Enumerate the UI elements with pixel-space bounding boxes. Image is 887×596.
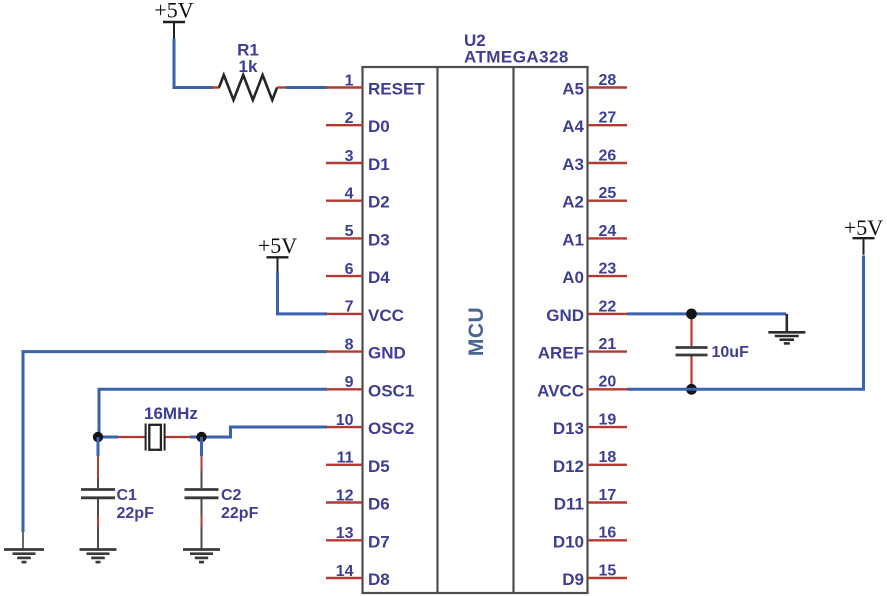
pin 20 stub bbox=[588, 388, 627, 390]
svg-text:MCU: MCU bbox=[465, 307, 488, 356]
capacitor C2 leads bbox=[200, 437, 203, 549]
svg-text:22pF: 22pF bbox=[117, 505, 155, 522]
svg-text:9: 9 bbox=[345, 374, 354, 391]
svg-text:15: 15 bbox=[599, 562, 617, 579]
pin 1 stub bbox=[326, 86, 363, 88]
svg-text:AREF: AREF bbox=[538, 344, 584, 363]
crystal X1 16MHz bbox=[146, 424, 165, 451]
svg-text:22pF: 22pF bbox=[221, 505, 259, 522]
svg-text:4: 4 bbox=[345, 186, 354, 203]
pin 7 stub bbox=[326, 313, 363, 315]
svg-text:D12: D12 bbox=[553, 457, 584, 476]
svg-text:ATMEGA328: ATMEGA328 bbox=[464, 48, 569, 67]
pin 10 stub bbox=[326, 426, 363, 428]
svg-text:A2: A2 bbox=[562, 193, 584, 212]
svg-text:C2: C2 bbox=[221, 487, 242, 504]
svg-text:A1: A1 bbox=[562, 230, 584, 249]
ground symbol GND (below C2) bbox=[183, 550, 220, 563]
pin 21 stub bbox=[588, 350, 627, 352]
capacitor C1 leads bbox=[97, 437, 100, 549]
svg-text:+5V: +5V bbox=[844, 215, 883, 240]
wire +5V to pin 7 VCC bbox=[278, 273, 328, 314]
svg-text:D2: D2 bbox=[368, 193, 390, 212]
pin 8 stub bbox=[326, 350, 363, 352]
svg-text:A4: A4 bbox=[562, 117, 584, 136]
svg-text:22: 22 bbox=[599, 298, 617, 315]
svg-text:D13: D13 bbox=[553, 419, 584, 438]
svg-text:21: 21 bbox=[599, 336, 617, 353]
pin 6 stub bbox=[326, 275, 363, 277]
svg-text:16MHz: 16MHz bbox=[144, 404, 198, 423]
svg-text:20: 20 bbox=[599, 374, 617, 391]
wire pin 9 OSC1 to crystal node A bbox=[99, 389, 327, 434]
wire R1 to pin 1 bbox=[286, 86, 327, 89]
pin 19 stub bbox=[588, 426, 627, 428]
ground stem (right) bbox=[785, 314, 788, 332]
svg-text:D3: D3 bbox=[368, 230, 390, 249]
svg-text:OSC2: OSC2 bbox=[368, 419, 414, 438]
svg-text:10: 10 bbox=[336, 412, 354, 429]
svg-text:28: 28 bbox=[599, 72, 617, 89]
svg-text:26: 26 bbox=[599, 147, 617, 164]
wire pin 22 GND to right ground bbox=[627, 312, 786, 315]
pin 23 stub bbox=[588, 275, 627, 277]
pin 27 stub bbox=[588, 124, 627, 126]
svg-text:C1: C1 bbox=[117, 487, 138, 504]
pin 14 stub bbox=[326, 577, 363, 579]
crystal X1 leads bbox=[98, 436, 199, 439]
pin 2 stub bbox=[326, 124, 363, 126]
svg-text:6: 6 bbox=[345, 261, 354, 278]
svg-text:VCC: VCC bbox=[368, 306, 404, 325]
svg-text:D5: D5 bbox=[368, 457, 390, 476]
wire pin 8 GND to left ground bbox=[23, 352, 327, 532]
pin 28 stub bbox=[588, 86, 627, 88]
svg-text:D1: D1 bbox=[368, 155, 390, 174]
capacitor C1 plates bbox=[81, 490, 115, 498]
pin 3 stub bbox=[326, 162, 363, 164]
svg-text:23: 23 bbox=[599, 261, 617, 278]
svg-text:D11: D11 bbox=[554, 495, 584, 514]
svg-text:8: 8 bbox=[345, 336, 354, 353]
svg-text:+5V: +5V bbox=[154, 0, 193, 23]
node D (pin20 junction) bbox=[686, 384, 697, 395]
svg-text:16: 16 bbox=[599, 525, 617, 542]
ground symbol GND (right) bbox=[768, 332, 805, 343]
resistor R1 bbox=[212, 75, 287, 100]
capacitor C2 plates bbox=[185, 490, 219, 498]
svg-text:17: 17 bbox=[599, 487, 617, 504]
pin 9 stub bbox=[326, 388, 363, 390]
svg-text:13: 13 bbox=[336, 525, 354, 542]
svg-text:11: 11 bbox=[337, 450, 354, 467]
svg-text:25: 25 bbox=[599, 185, 617, 202]
svg-text:2: 2 bbox=[345, 110, 354, 127]
power symbol +5V (top left) bbox=[154, 0, 193, 39]
svg-text:+5V: +5V bbox=[258, 233, 297, 258]
node C (pin22 junction) bbox=[686, 309, 697, 320]
capacitor C3 leads bbox=[690, 314, 692, 390]
pin 25 stub bbox=[588, 199, 627, 201]
node A (OSC1 junction) bbox=[93, 432, 103, 442]
svg-text:18: 18 bbox=[599, 449, 617, 466]
svg-text:3: 3 bbox=[345, 148, 354, 165]
pin 26 stub bbox=[588, 162, 627, 164]
pin 17 stub bbox=[588, 501, 627, 503]
svg-text:D9: D9 bbox=[562, 570, 584, 589]
svg-text:1: 1 bbox=[345, 72, 354, 89]
svg-text:24: 24 bbox=[599, 223, 617, 240]
svg-text:5: 5 bbox=[345, 223, 354, 240]
capacitor C3 plates bbox=[676, 348, 708, 356]
svg-text:D7: D7 bbox=[368, 532, 390, 551]
svg-text:D0: D0 bbox=[368, 117, 390, 136]
pin 11 stub bbox=[326, 464, 363, 466]
svg-text:AVCC: AVCC bbox=[537, 381, 584, 400]
svg-text:GND: GND bbox=[546, 306, 584, 325]
node B (OSC2 junction) bbox=[196, 432, 206, 442]
ground symbol GND (below C1) bbox=[80, 550, 117, 563]
svg-text:D8: D8 bbox=[368, 570, 390, 589]
wire +5V to R1 (net RESET) bbox=[174, 39, 213, 88]
pin 5 stub bbox=[326, 237, 363, 239]
svg-text:19: 19 bbox=[599, 412, 617, 429]
U2 MCU label (rotated) bbox=[465, 307, 488, 356]
pin 4 stub bbox=[326, 199, 363, 201]
pin 24 stub bbox=[588, 237, 627, 239]
pin 13 stub bbox=[326, 539, 363, 541]
svg-text:7: 7 bbox=[345, 299, 354, 316]
ground symbol GND (far left) bbox=[4, 550, 44, 563]
svg-text:GND: GND bbox=[368, 344, 406, 363]
pin 22 stub bbox=[588, 313, 627, 315]
pin 16 stub bbox=[588, 539, 627, 541]
svg-text:14: 14 bbox=[336, 563, 354, 580]
svg-text:D6: D6 bbox=[368, 495, 390, 514]
svg-text:RESET: RESET bbox=[368, 80, 425, 99]
svg-text:12: 12 bbox=[336, 487, 354, 504]
svg-text:A3: A3 bbox=[562, 155, 584, 174]
svg-text:27: 27 bbox=[599, 110, 617, 127]
power symbol +5V (VCC) bbox=[258, 233, 297, 274]
wire pin 20 AVCC to +5V right bbox=[627, 256, 864, 390]
svg-text:OSC1: OSC1 bbox=[368, 381, 414, 400]
svg-text:D4: D4 bbox=[368, 268, 390, 287]
pin 12 stub bbox=[326, 501, 363, 503]
svg-text:10uF: 10uF bbox=[712, 344, 750, 361]
pin 18 stub bbox=[588, 464, 627, 466]
svg-text:A0: A0 bbox=[562, 268, 584, 287]
power symbol +5V (AVCC) bbox=[844, 215, 883, 255]
svg-text:D10: D10 bbox=[553, 532, 584, 551]
wire pin 10 OSC2 to crystal node B bbox=[205, 427, 327, 437]
svg-text:A5: A5 bbox=[562, 80, 584, 99]
pin 15 stub bbox=[588, 577, 627, 579]
svg-text:1k: 1k bbox=[239, 57, 258, 76]
IC U2 ATMEGA328 body bbox=[363, 67, 588, 593]
ground lead (left) bbox=[22, 531, 24, 549]
